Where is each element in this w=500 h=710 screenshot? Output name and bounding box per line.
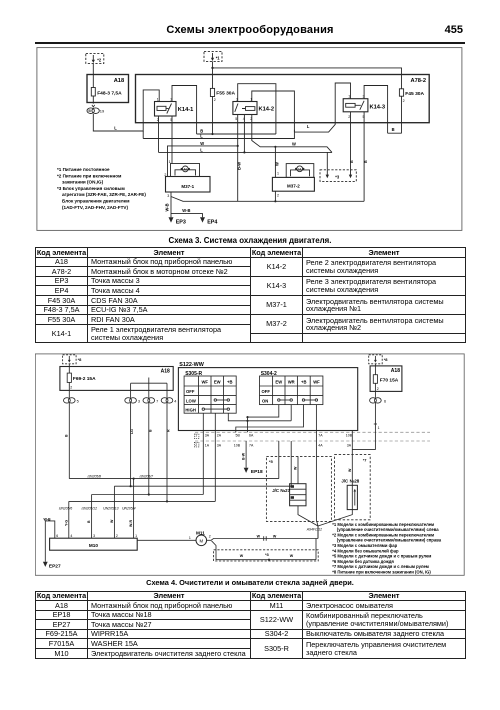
svg-text:1: 1 [348,95,350,99]
svg-text:W: W [200,141,204,146]
svg-text:B: B [350,160,354,163]
frame schematic 4 [35,354,464,575]
svg-text:*3 Модели с омывателями фар: *3 Модели с омывателями фар [332,543,397,548]
svg-text:EW: EW [275,380,282,385]
svg-text:B-W: B-W [242,452,246,460]
svg-text:1: 1 [189,536,191,540]
wire WF S304 down to junction [316,405,318,526]
dashed option box *3 [214,550,319,561]
svg-text:*8: *8 [78,357,83,362]
svg-text:7A: 7A [249,443,254,447]
svg-text:3: 3 [363,95,365,99]
dashed box *7 [335,455,371,520]
svg-text:WF: WF [201,380,208,385]
block A18 right [370,366,402,392]
wire F70 down [352,403,375,450]
svg-text:K14-3: K14-3 [370,104,386,110]
svg-text:IB: IB [88,109,92,113]
svg-text:2: 2 [214,98,216,102]
ECU dashed box *3 [320,170,356,182]
svg-text:3: 3 [236,98,238,102]
junction box J/C 27 [290,484,306,506]
fuse F45 30A [399,89,403,134]
svg-text:B: B [148,429,152,432]
ground EP3 [169,217,174,222]
svg-text:*8: *8 [384,357,389,362]
wire EW S304 to junction [248,405,279,433]
svg-text:3: 3 [167,194,169,198]
svg-text:+B: +B [227,380,232,385]
svg-text:W-B: W-B [182,208,190,213]
connector 4 [161,390,173,403]
notes schematic 4 [332,522,441,575]
svg-text:M: M [200,538,204,543]
svg-text:IJN205/13: IJN205/13 [103,506,119,510]
svg-text:IJN205/6: IJN205/6 [59,506,73,510]
svg-text:EW: EW [214,380,221,385]
wire net3 H [92,403,204,538]
contacts S304-2 [278,399,318,401]
connector *2 [86,53,104,63]
wire to A18 [68,364,70,373]
svg-text:3A: 3A [347,443,352,447]
svg-text:*5: *5 [269,459,274,464]
svg-text:L: L [307,124,310,129]
wire K14-3 pin2 to ECU [350,112,352,170]
connector 6 [370,391,382,403]
svg-text:L: L [114,126,117,131]
wire K14-2 pin5 to M37-1 pin2 [168,115,238,202]
svg-text:*2: *2 [97,57,102,62]
svg-text:Y-G: Y-G [64,520,68,526]
svg-text:J/C №28: J/C №28 [341,478,359,483]
wire net2 H [114,403,291,538]
svg-text:S304-2: S304-2 [261,371,277,377]
svg-text:4: 4 [70,534,72,538]
svg-text:+B: +B [301,380,306,385]
svg-text:OFF: OFF [262,389,271,394]
wire from *2 to A18 [92,64,94,75]
svg-text:EP4: EP4 [207,220,217,226]
svg-text:K14-2: K14-2 [259,106,275,112]
motor M10 [50,538,138,550]
svg-text:*8 Питание при включенном зажи: *8 Питание при включенном зажигании (ON,… [332,570,431,575]
svg-text:4: 4 [174,400,176,404]
svg-text:M: M [298,167,301,171]
wire from *1 to F55 and F45 [213,61,402,88]
svg-text:OFF: OFF [186,389,195,394]
svg-text:2: 2 [209,535,211,539]
svg-text:6A: 6A [249,434,254,438]
svg-text:10B: 10B [234,443,241,447]
svg-text:1: 1 [169,160,171,164]
svg-text:W: W [292,141,296,146]
svg-text:S122-WW: S122-WW [179,362,204,368]
svg-text:M37-1: M37-1 [181,184,194,189]
svg-text:B-W: B-W [236,162,241,170]
svg-text:*3: *3 [265,552,270,557]
svg-text:B: B [392,127,395,132]
svg-text:3A: 3A [217,443,222,447]
block S122-WW [178,368,357,431]
switch S305-R grid [184,376,236,413]
svg-text:2A: 2A [217,434,222,438]
svg-text:3: 3 [138,400,140,404]
svg-text:WF: WF [313,380,320,385]
svg-text:2: 2 [403,99,405,103]
svg-text:R: R [167,429,171,432]
svg-text:*1 Модели с комбинированным пе: *1 Модели с комбинированным переключател… [332,522,434,527]
svg-text:A94FC/12: A94FC/12 [306,527,322,531]
svg-text:M37-2: M37-2 [287,183,300,188]
svg-text:4A: 4A [318,443,323,447]
svg-text:1A: 1A [205,443,210,447]
svg-text:L: L [200,148,203,153]
svg-text:2: 2 [157,118,159,122]
svg-text:*4 Модели без омывателей фар: *4 Модели без омывателей фар [332,548,399,553]
svg-text:W: W [275,162,280,166]
svg-text:*7 Модели с датчиком дождя и с: *7 Модели с датчиком дождя и с левым рул… [332,564,429,569]
svg-text:агрегатом (3ZR-FAE, 3ZR-FE, 2A: агрегатом (3ZR-FAE, 3ZR-FE, 2AR-FE) [62,192,146,197]
wire EW S304 down [278,441,280,479]
svg-text:IJN205/7: IJN205/7 [139,475,153,479]
svg-text:W: W [273,534,277,538]
connector 5 [64,390,76,403]
pump M11 [137,535,211,546]
svg-text:2: 2 [377,387,379,391]
svg-text:A78-2: A78-2 [411,78,427,84]
svg-text:W: W [290,554,294,558]
svg-text:W-B: W-B [44,517,52,521]
dashed box *5 [266,456,331,521]
svg-text:B: B [87,520,91,523]
wire M37-1 to grounds [171,192,203,217]
wire K14-1 pin5 to M37-1 pin1 [171,116,173,164]
wire L net: K14-2 pin1 to K14-3 pin1 [252,83,351,132]
svg-text:M11: M11 [196,530,205,535]
wire B net F45 loop [171,86,402,202]
svg-text:M10: M10 [89,543,99,548]
svg-text:W-B: W-B [165,203,170,211]
svg-text:*2 Питание при включенном: *2 Питание при включенном [57,173,122,178]
svg-text:F45 30A: F45 30A [405,91,424,97]
svg-text:W: W [240,554,244,558]
wire K14-2 pin2 to M37-2 pin1 [252,115,332,178]
svg-text:5B: 5B [236,434,241,438]
svg-text:1: 1 [250,98,252,102]
wire net4 H [69,403,216,538]
svg-text:IJN205/4: IJN205/4 [122,506,136,510]
wire +B junction [228,405,291,421]
svg-text:W: W [257,534,261,538]
mini connector tags [194,434,199,447]
wire EP18 [245,441,247,468]
motor M37-1 [166,164,211,193]
ground EP18 [244,468,249,473]
svg-text:2: 2 [116,534,118,538]
svg-text:M: M [184,167,187,171]
ground EP27 [43,562,48,567]
svg-text:F48-3 7,5A: F48-3 7,5A [97,91,122,97]
svg-text:6: 6 [56,534,58,538]
svg-text:IJN205/8: IJN205/8 [87,475,101,479]
svg-text:W: W [294,466,298,470]
svg-text:5: 5 [363,115,365,119]
svg-text:2: 2 [70,386,72,390]
frame schematic 3 [37,48,462,231]
svg-text:W: W [110,519,114,523]
fuse F55 30A [210,88,214,134]
svg-text:*7: *7 [363,458,368,463]
svg-text:LG: LG [130,429,134,434]
gray connector line 1 [195,431,430,433]
svg-text:5: 5 [77,400,79,404]
svg-text:B: B [65,434,69,437]
svg-text:F55 30A: F55 30A [216,90,235,96]
svg-text:1: 1 [135,534,137,538]
svg-text:1: 1 [378,426,380,430]
notes schematic 3 [57,167,146,210]
svg-text:A18: A18 [114,78,124,84]
svg-text:2: 2 [250,117,252,121]
wire M11 to junction [211,526,318,540]
svg-text:3: 3 [93,534,95,538]
wire M10 pin1 up [133,479,135,539]
svg-text:2: 2 [195,443,197,447]
ground EP4 [200,217,205,222]
svg-text:(управление очистителями/омыва: (управление очистителями/омывателями) сл… [337,527,439,532]
wire coil line to ECU [159,115,333,170]
svg-text:ON: ON [262,398,268,403]
connector 7 [143,390,155,403]
svg-text:S305-R: S305-R [185,371,202,377]
block A18 [87,75,129,103]
svg-text:*3: *3 [335,174,340,179]
svg-text:F70 15A: F70 15A [380,377,399,383]
svg-text:EP18: EP18 [251,469,263,475]
svg-text:2: 2 [277,194,279,198]
svg-text:Блок управления двигателем: Блок управления двигателем [62,199,130,204]
wire L from A18 to K14-1 coil [93,90,159,131]
svg-text:K14-1: K14-1 [178,107,194,113]
svg-text:*1: *1 [216,55,221,60]
svg-text:2: 2 [164,173,166,177]
svg-text:6: 6 [384,400,386,404]
svg-text:1: 1 [277,172,279,176]
junction box J/C 28 [347,485,357,509]
inline connector ticks [264,536,267,540]
wire +B S304 to connector [236,405,304,433]
svg-text:*6 Модели без датчика дождя: *6 Модели без датчика дождя [332,559,394,564]
svg-text:(управление очистителями/омыва: (управление очистителями/омывателями) сп… [337,538,442,543]
wire EW S305 down [214,413,216,501]
svg-text:7A: 7A [318,434,323,438]
svg-text:EP3: EP3 [176,219,186,225]
svg-text:10B: 10B [346,434,353,438]
svg-text:3A: 3A [205,434,210,438]
svg-text:*3 Блок управления силовым: *3 Блок управления силовым [57,186,125,191]
connector *8 left [63,355,77,364]
svg-text:1: 1 [157,98,159,102]
svg-text:IJN205/12: IJN205/12 [81,506,97,510]
svg-text:19: 19 [100,109,105,114]
svg-text:WR: WR [288,380,295,385]
svg-text:HIGH: HIGH [185,408,195,413]
connector *1 [204,51,222,61]
svg-text:(1AD-FTV, 2AD-FHV, 2AD-FTV): (1AD-FTV, 2AD-FHV, 2AD-FTV) [62,205,128,210]
svg-text:7: 7 [156,400,158,404]
wire WR S304 down [290,441,292,486]
wire WF S305 down [202,413,204,494]
connector 19 [87,105,99,114]
svg-text:4: 4 [243,117,245,121]
gray connector line 2 [195,440,430,442]
svg-text:F69-2 15A: F69-2 15A [73,376,96,382]
fuse F70 15A [373,364,377,392]
wire net1 H [69,403,278,479]
svg-text:1: 1 [195,433,197,437]
wires J/C 27 [298,456,318,526]
svg-text:A18: A18 [161,369,170,375]
svg-text:B: B [364,160,368,163]
tick pin1 F70 wire [374,423,377,425]
relay K14-3 [343,99,368,112]
wires J/C 28 [318,431,352,539]
fuse F69-2 15A [67,373,71,390]
wire L branch to K14-2 loop [143,130,294,139]
svg-text:5: 5 [170,118,172,122]
svg-text:*5 Модели с датчиком дождя и с: *5 Модели с датчиком дождя и с правым ру… [332,554,431,559]
motor M37-2 [272,164,314,192]
contacts S305-R [202,399,229,411]
connector *8 right [369,355,383,364]
svg-text:J/C №27: J/C №27 [272,488,290,493]
svg-text:LOW: LOW [186,398,196,403]
wire option path [212,539,317,560]
relay K14-2 [233,102,257,115]
block A78-2 [136,75,430,123]
wire M10 pin6 to EP27 [45,521,55,562]
switch S304-2 grid [260,376,323,405]
svg-text:зажигании (ON,IG): зажигании (ON,IG) [62,180,104,185]
svg-text:W: W [348,468,352,472]
wire B net: F55 to K14-1 pin3 and K14-2 pin3 [172,84,276,134]
bus comb inside A18 [131,378,167,391]
relay K14-1 [155,102,177,117]
svg-text:*1 Питание постоянное: *1 Питание постоянное [57,167,110,172]
svg-text:EP27: EP27 [49,564,61,570]
svg-text:W-R: W-R [129,519,133,527]
svg-text:*2 Модели с комбинированным пе: *2 Модели с комбинированным переключател… [332,532,434,537]
svg-text:2: 2 [348,115,350,119]
svg-text:3: 3 [170,98,172,102]
svg-text:5: 5 [235,117,237,121]
fuse F48-3 7,5A [91,75,95,104]
connector 3 [125,390,137,403]
block A18 left [60,367,173,391]
svg-text:A18: A18 [391,368,400,374]
